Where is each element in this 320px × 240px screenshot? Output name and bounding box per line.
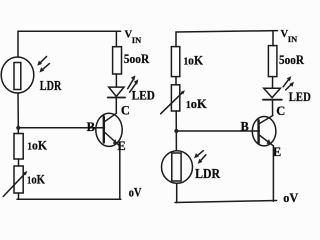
svg-text:B: B xyxy=(87,120,95,134)
svg-text:LDR: LDR xyxy=(195,167,221,182)
svg-text:B: B xyxy=(241,120,249,134)
svg-text:oV: oV xyxy=(283,191,298,205)
svg-text:LED: LED xyxy=(289,89,311,104)
svg-text:5ooR: 5ooR xyxy=(279,52,305,67)
svg-text:LED: LED xyxy=(132,88,155,103)
svg-text:oV: oV xyxy=(129,186,142,200)
svg-text:C: C xyxy=(276,104,285,118)
svg-text:IN: IN xyxy=(132,35,142,45)
svg-text:LDR: LDR xyxy=(40,79,62,94)
svg-text:E: E xyxy=(117,139,125,153)
svg-text:IN: IN xyxy=(288,34,298,44)
svg-text:5ooR: 5ooR xyxy=(124,51,150,66)
svg-text:C: C xyxy=(121,103,130,117)
svg-text:E: E xyxy=(273,145,281,159)
